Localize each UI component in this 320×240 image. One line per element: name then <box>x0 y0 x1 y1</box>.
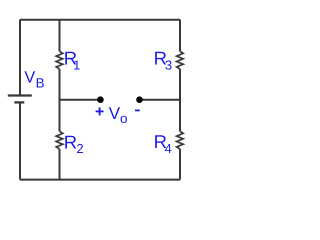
node terminal dot right <box>136 96 143 103</box>
wire bottom <box>20 179 180 181</box>
svg-text:V: V <box>109 104 121 123</box>
svg-text:R: R <box>64 131 77 152</box>
svg-text:2: 2 <box>76 141 83 156</box>
wire output right <box>140 99 181 101</box>
svg-text:B: B <box>36 75 45 90</box>
plus sign (output polarity) <box>96 107 104 115</box>
wire left upper (to battery) <box>19 20 21 96</box>
wire right lower stub <box>179 149 181 180</box>
svg-text:V: V <box>24 68 35 86</box>
resistor R2 <box>56 131 63 149</box>
wire middle branch center stub <box>59 69 61 131</box>
svg-text:4: 4 <box>165 141 172 156</box>
wire top <box>20 19 180 21</box>
wire output left <box>60 99 101 101</box>
wire right upper stub <box>179 20 181 52</box>
svg-text:o: o <box>120 111 128 126</box>
wire middle branch lower stub <box>59 149 61 180</box>
wire right center stub <box>179 69 181 131</box>
resistor R1 <box>56 51 63 69</box>
resistor R4 <box>177 131 184 149</box>
node terminal dot left <box>97 96 104 103</box>
wire left lower (from battery) <box>19 102 21 179</box>
svg-text:1: 1 <box>73 57 80 72</box>
battery VB short plate <box>14 101 24 103</box>
battery VB long plate <box>8 94 32 96</box>
minus sign (output polarity) <box>135 109 140 111</box>
resistor R3 <box>177 51 184 69</box>
wire middle branch upper stub <box>59 20 61 52</box>
svg-text:3: 3 <box>165 58 172 73</box>
